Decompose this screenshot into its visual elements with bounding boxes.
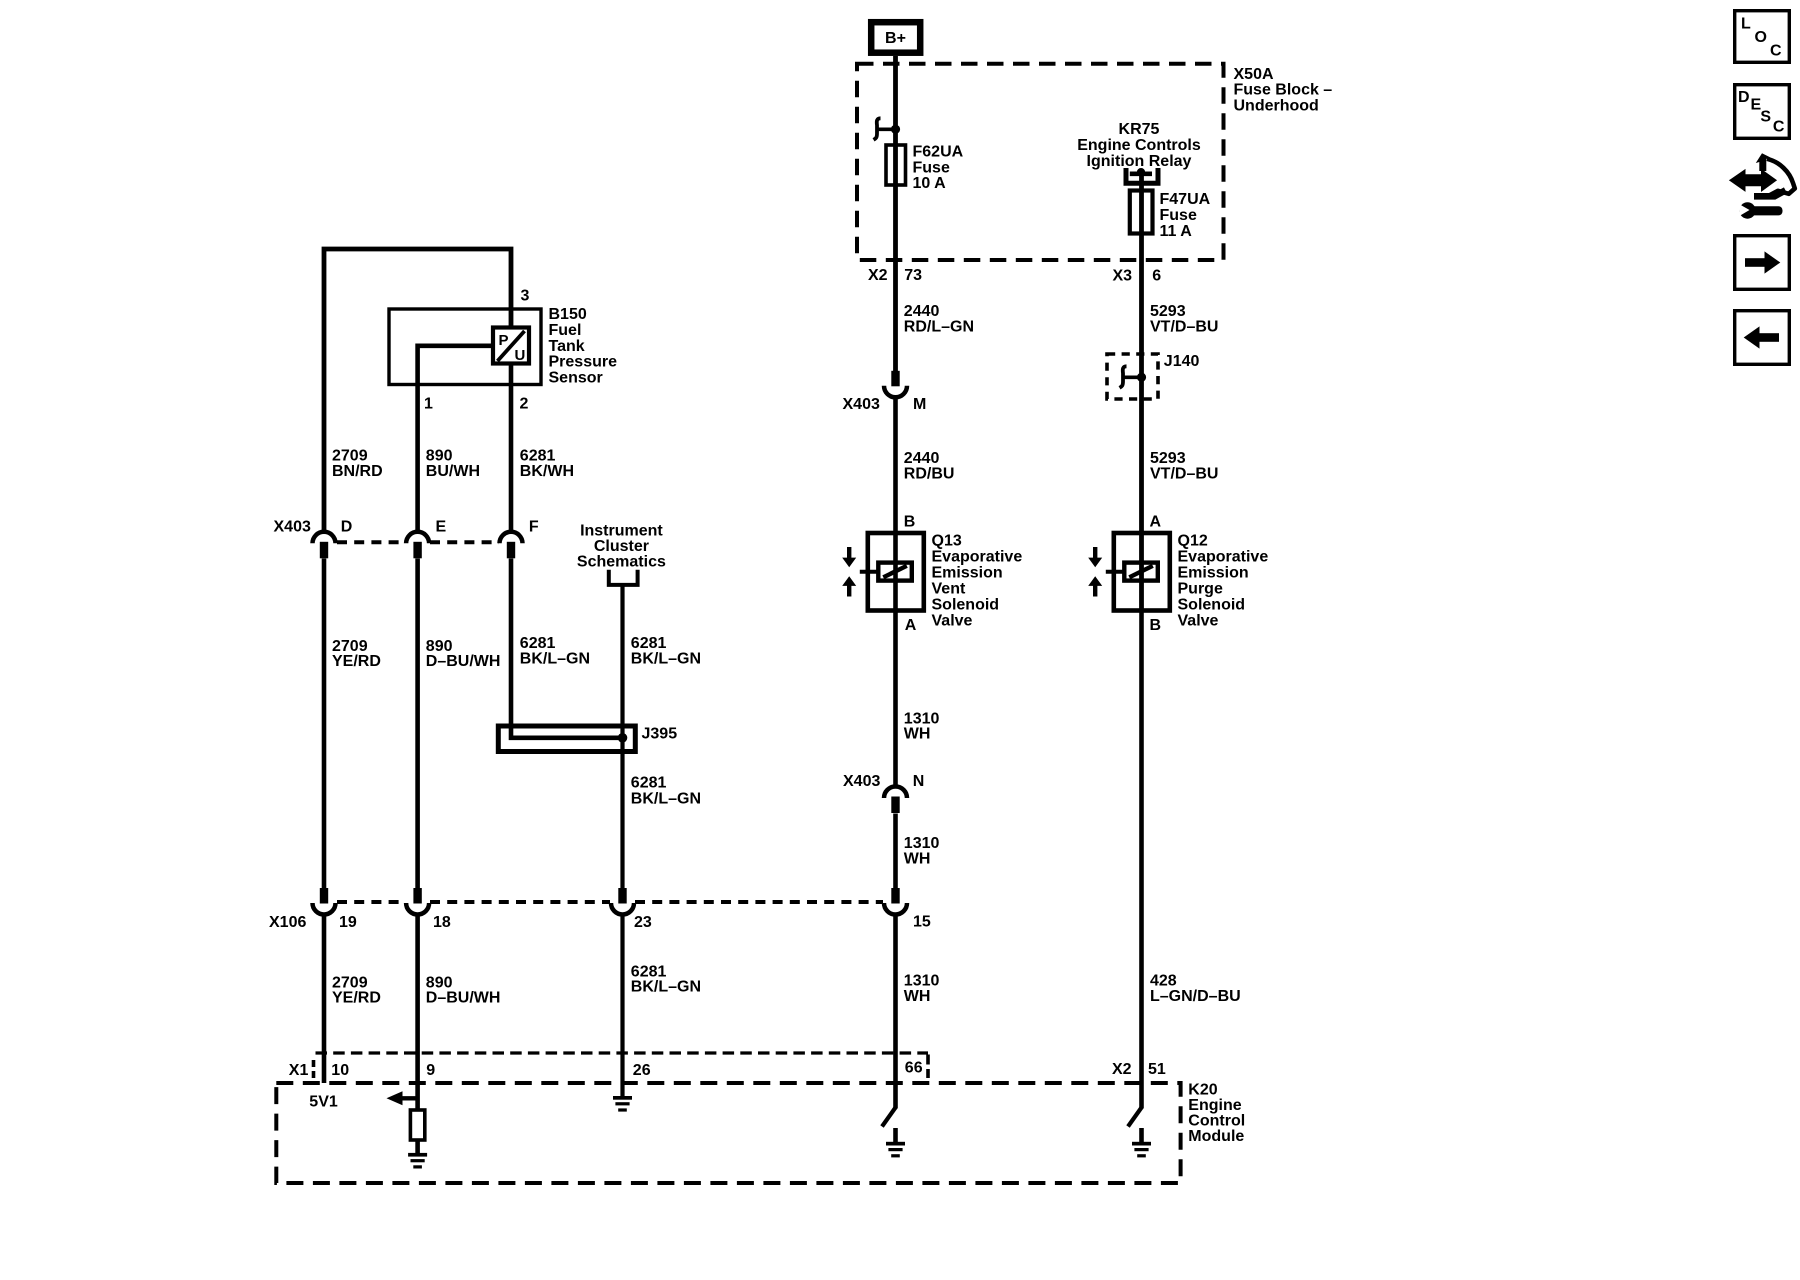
svg-text:66: 66	[905, 1060, 923, 1077]
connector X106 dashed line	[337, 900, 405, 904]
svg-text:Evaporative: Evaporative	[932, 548, 1023, 565]
splice J140 dashed box	[1107, 354, 1158, 399]
svg-text:Solenoid: Solenoid	[1178, 596, 1246, 613]
wire: Q12 B down to ECM X2-51	[1139, 611, 1144, 1109]
svg-text:B: B	[904, 513, 916, 530]
icon DESC button	[1735, 85, 1790, 139]
ground at ECM pin 51	[1139, 1128, 1144, 1142]
svg-text:Purge: Purge	[1178, 580, 1223, 597]
svg-text:Valve: Valve	[932, 612, 973, 629]
fuse F62UA	[886, 145, 906, 185]
svg-text:Sensor: Sensor	[549, 370, 603, 387]
svg-text:Engine: Engine	[1188, 1097, 1241, 1114]
wire D: X403-D to X106-19	[322, 559, 327, 889]
svg-text:26: 26	[633, 1062, 651, 1079]
svg-text:YE/RD: YE/RD	[332, 653, 381, 670]
sensor B150 outline box	[389, 309, 541, 385]
svg-text:VT/D–BU: VT/D–BU	[1150, 465, 1218, 482]
svg-text:J395: J395	[642, 725, 678, 742]
svg-text:Fuse: Fuse	[1160, 207, 1197, 224]
svg-text:Q12: Q12	[1178, 532, 1208, 549]
svg-text:6281: 6281	[631, 775, 667, 792]
svg-text:C: C	[1770, 43, 1782, 60]
wire F: X403-F into splice J395	[511, 559, 623, 738]
connector X106 pin 15	[891, 888, 899, 904]
svg-text:5V1: 5V1	[309, 1093, 338, 1110]
fuse block X50A dashed box	[857, 64, 1224, 260]
svg-text:Fuse: Fuse	[913, 159, 950, 176]
svg-text:WH: WH	[904, 851, 931, 868]
svg-text:Schematics: Schematics	[577, 554, 666, 571]
svg-text:C: C	[1773, 119, 1785, 136]
svg-text:P: P	[499, 332, 509, 349]
ground under resistor	[408, 1153, 427, 1157]
connector X106 pin 19	[320, 888, 328, 904]
svg-text:B+: B+	[885, 30, 906, 47]
svg-text:X2: X2	[868, 267, 888, 284]
svg-text:1: 1	[424, 395, 433, 412]
svg-text:6: 6	[1152, 267, 1161, 284]
internal arrow at ECM pin 9	[400, 1096, 418, 1100]
connector X403 pin F	[500, 532, 523, 544]
internal resistor at ECM pin 9	[415, 1083, 420, 1110]
svg-text:F47UA: F47UA	[1160, 191, 1211, 208]
wire D: X106-19 to ECM pin 10	[322, 914, 327, 1084]
icon related-info double arrow with wrench	[1732, 153, 1795, 219]
svg-text:Emission: Emission	[932, 564, 1003, 581]
wire: Q13 A down to X403-N	[893, 611, 898, 789]
wire: instrument cluster branch down through J395	[620, 585, 624, 889]
svg-text:BK/L–GN: BK/L–GN	[520, 650, 590, 667]
svg-text:Instrument: Instrument	[580, 523, 663, 540]
svg-text:18: 18	[433, 914, 451, 931]
splice J395 box	[498, 726, 635, 752]
svg-text:X2: X2	[1112, 1061, 1132, 1078]
svg-text:O: O	[1755, 29, 1767, 46]
svg-text:Fuel: Fuel	[549, 322, 582, 339]
svg-text:Underhood: Underhood	[1234, 97, 1319, 114]
svg-text:L–GN/D–BU: L–GN/D–BU	[1150, 988, 1241, 1005]
svg-text:KR75: KR75	[1119, 121, 1160, 138]
connector X403 pin D	[313, 532, 336, 544]
svg-text:F62UA: F62UA	[913, 144, 964, 161]
svg-text:E: E	[436, 519, 447, 536]
svg-text:11 A: 11 A	[1160, 223, 1193, 240]
wire: jumper from B150 pin 3 over to branch D	[324, 249, 511, 533]
svg-text:D–BU/WH: D–BU/WH	[426, 990, 501, 1007]
svg-text:J140: J140	[1164, 353, 1200, 370]
svg-text:10 A: 10 A	[913, 175, 947, 192]
svg-text:X403: X403	[843, 396, 880, 413]
connector X106 pin 23	[618, 888, 626, 904]
svg-text:73: 73	[904, 267, 922, 284]
svg-text:3: 3	[521, 288, 530, 305]
svg-text:BK/WH: BK/WH	[520, 463, 574, 480]
svg-text:D: D	[1738, 89, 1750, 106]
icon forward arrow button	[1735, 236, 1790, 290]
svg-text:Q13: Q13	[932, 532, 962, 549]
svg-text:B: B	[1150, 617, 1162, 634]
svg-text:Control: Control	[1188, 1113, 1245, 1130]
solenoid valve Q12	[1114, 533, 1170, 611]
pressure sensor P/U symbol	[493, 328, 529, 364]
svg-text:BU/WH: BU/WH	[426, 463, 480, 480]
svg-text:BK/L–GN: BK/L–GN	[631, 791, 701, 808]
svg-text:VT/D–BU: VT/D–BU	[1150, 318, 1218, 335]
svg-text:23: 23	[634, 914, 652, 931]
svg-text:N: N	[913, 773, 925, 790]
svg-text:19: 19	[339, 914, 357, 931]
icon LOC button	[1735, 11, 1790, 63]
connector X403 pin E	[406, 532, 429, 544]
wire: relay to fuse F47UA to X3-6	[1139, 176, 1144, 612]
svg-text:YE/RD: YE/RD	[332, 990, 381, 1007]
ECM K20 dashed box	[276, 1083, 1180, 1183]
svg-text:X403: X403	[843, 773, 880, 790]
svg-text:WH: WH	[904, 988, 931, 1005]
svg-text:F: F	[529, 519, 539, 536]
svg-text:15: 15	[913, 913, 931, 930]
ground at ECM pin 66	[893, 1128, 898, 1142]
svg-text:9: 9	[426, 1062, 435, 1079]
bracket under instrument cluster label	[609, 570, 638, 585]
battery feed B+ box	[871, 22, 920, 53]
svg-text:51: 51	[1148, 1061, 1166, 1078]
icon back arrow button	[1735, 311, 1790, 365]
svg-text:Solenoid: Solenoid	[932, 596, 1000, 613]
svg-text:U: U	[515, 347, 526, 364]
svg-text:2: 2	[520, 395, 529, 412]
ground at ECM pin 26	[613, 1096, 632, 1100]
svg-text:10: 10	[331, 1062, 349, 1079]
svg-text:Module: Module	[1188, 1128, 1244, 1145]
svg-text:Engine Controls: Engine Controls	[1077, 137, 1201, 154]
connector X106 pin 18	[413, 888, 421, 904]
svg-text:D–BU/WH: D–BU/WH	[426, 653, 501, 670]
svg-text:RD/L–GN: RD/L–GN	[904, 318, 974, 335]
svg-text:X50A: X50A	[1234, 66, 1274, 83]
internal switch contact at pin 66	[882, 1108, 896, 1127]
svg-text:Fuse Block –: Fuse Block –	[1234, 82, 1333, 99]
solenoid valve Q13	[868, 533, 924, 611]
connector X403 pin M	[891, 371, 899, 387]
wire: B150 pin 1 internal	[418, 346, 493, 533]
svg-text:WH: WH	[904, 726, 931, 743]
fuse F47UA	[1130, 191, 1153, 234]
wire 26: X106-23 to ECM ground	[620, 914, 624, 1097]
svg-text:A: A	[905, 617, 917, 634]
svg-text:X3: X3	[1113, 267, 1133, 284]
wire E: X106-18 to ECM pin 9	[415, 914, 420, 1084]
svg-text:D: D	[341, 519, 353, 536]
svg-text:Evaporative: Evaporative	[1178, 548, 1269, 565]
svg-text:Tank: Tank	[549, 338, 585, 355]
connector X1 dashed line	[316, 1051, 929, 1054]
bus tap at F62UA	[874, 118, 881, 140]
svg-text:RD/BU: RD/BU	[904, 465, 955, 482]
wire 66: X106-15 to ECM pin 66	[893, 914, 898, 1109]
tap inside J140	[1120, 366, 1127, 388]
svg-text:X106: X106	[269, 914, 306, 931]
svg-text:M: M	[913, 396, 926, 413]
wire E: X403-E to X106-18	[415, 559, 420, 889]
svg-text:Cluster: Cluster	[594, 538, 649, 555]
svg-text:K20: K20	[1188, 1081, 1217, 1098]
svg-text:Emission: Emission	[1178, 564, 1249, 581]
svg-text:BK/L–GN: BK/L–GN	[631, 979, 701, 996]
svg-text:Ignition Relay: Ignition Relay	[1087, 153, 1192, 170]
svg-text:X403: X403	[274, 519, 311, 536]
svg-text:Pressure: Pressure	[549, 354, 618, 371]
svg-text:Valve: Valve	[1178, 612, 1219, 629]
svg-text:A: A	[1150, 513, 1162, 530]
internal switch contact at pin 51	[1128, 1108, 1142, 1127]
svg-text:B150: B150	[549, 306, 587, 323]
connector X403 pin N	[884, 787, 907, 799]
svg-text:X1: X1	[289, 1062, 309, 1079]
connector X403 dashed line	[337, 540, 405, 544]
relay KR75 contact symbol	[1126, 168, 1158, 183]
wire: B150 pin 2 down	[509, 364, 514, 534]
svg-text:Vent: Vent	[932, 580, 966, 597]
wire: B+ down to fuse F62UA and X2-73	[893, 56, 898, 372]
svg-text:BN/RD: BN/RD	[332, 463, 383, 480]
svg-text:BK/L–GN: BK/L–GN	[631, 650, 701, 667]
svg-text:S: S	[1760, 109, 1771, 126]
junction dot in J395	[618, 733, 628, 743]
svg-text:L: L	[1741, 16, 1751, 33]
